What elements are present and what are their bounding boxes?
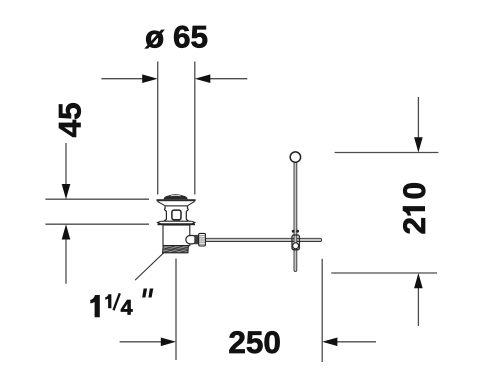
svg-text:ø 65: ø 65 (145, 19, 208, 55)
svg-text:0: 0 (396, 182, 432, 200)
svg-text:2: 2 (396, 217, 432, 235)
svg-text:250: 250 (228, 324, 281, 360)
svg-text:45: 45 (51, 102, 87, 137)
svg-text:4: 4 (121, 296, 133, 320)
